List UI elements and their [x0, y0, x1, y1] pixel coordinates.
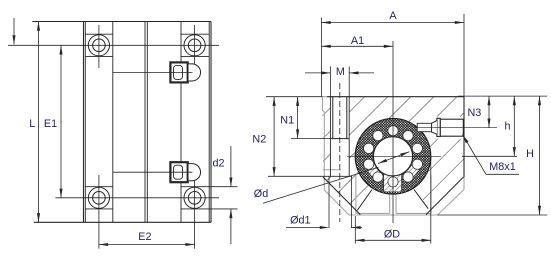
- svg-text:N3: N3: [467, 107, 481, 119]
- svg-text:d2: d2: [212, 157, 224, 169]
- svg-text:N2: N2: [252, 134, 266, 146]
- svg-text:M: M: [336, 66, 345, 78]
- svg-text:Ød: Ød: [254, 188, 268, 200]
- svg-text:A1: A1: [351, 35, 364, 47]
- svg-text:N1: N1: [280, 114, 294, 126]
- svg-text:H: H: [526, 148, 534, 160]
- svg-text:M8x1: M8x1: [489, 161, 515, 173]
- svg-text:E1: E1: [44, 118, 57, 130]
- svg-text:h: h: [504, 121, 510, 133]
- svg-text:ØD: ØD: [384, 228, 400, 240]
- svg-text:L: L: [29, 118, 35, 130]
- svg-text:E2: E2: [138, 231, 151, 243]
- svg-text:A: A: [389, 10, 397, 22]
- svg-text:Ød1: Ød1: [290, 214, 310, 226]
